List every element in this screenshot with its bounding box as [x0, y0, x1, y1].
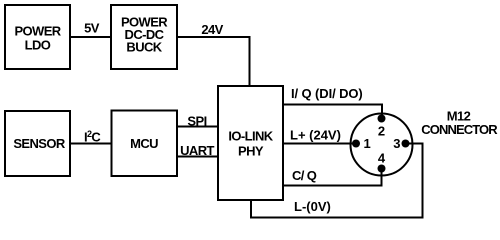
power DC-DC buck block: [111, 5, 177, 69]
pin 4 dot: [378, 165, 386, 173]
svg-text:SENSOR: SENSOR: [13, 136, 66, 151]
svg-text:L+ (24V): L+ (24V): [290, 128, 341, 143]
wire UART: MCU to PHY: [177, 156, 218, 158]
svg-text:2: 2: [378, 123, 385, 138]
wire I/Q: PHY to pin 2: [283, 105, 382, 119]
wire L+: PHY to pin 1: [283, 143, 356, 145]
svg-text:I2C: I2C: [84, 129, 101, 145]
wire I2C: sensor to MCU: [70, 143, 112, 145]
svg-text:PHY: PHY: [238, 143, 264, 158]
wire SPI: MCU to PHY: [177, 126, 218, 128]
pin 2 dot: [378, 115, 386, 123]
svg-text:24V: 24V: [201, 22, 223, 37]
svg-text:3: 3: [393, 136, 400, 151]
svg-text:C/ Q: C/ Q: [292, 168, 317, 183]
svg-text:UART: UART: [180, 143, 214, 158]
svg-text:MCU: MCU: [130, 136, 158, 151]
svg-text:BUCK: BUCK: [126, 40, 162, 55]
svg-text:POWER: POWER: [14, 23, 61, 38]
pin 1 dot: [352, 140, 360, 148]
svg-text:IO-LINK: IO-LINK: [228, 129, 273, 144]
wire 24V: buck to IO-Link PHY top: [177, 37, 250, 86]
M12 connector body: [351, 114, 413, 176]
svg-text:4: 4: [378, 151, 386, 166]
wire C/Q: PHY to pin 4: [283, 169, 382, 186]
label M12 CONNECTOR: [421, 108, 498, 137]
wire 5V: LDO to buck: [70, 36, 111, 38]
sensor block: [5, 111, 70, 176]
pin 3 dot: [402, 140, 410, 148]
svg-text:5V: 5V: [84, 21, 100, 36]
svg-text:LDO: LDO: [25, 37, 51, 52]
svg-text:SPI: SPI: [187, 113, 206, 128]
svg-text:1: 1: [364, 136, 371, 151]
svg-text:I/ Q (DI/ DO): I/ Q (DI/ DO): [291, 86, 363, 101]
svg-text:L-(0V): L-(0V): [294, 199, 331, 214]
wire L-: PHY bottom to pin 3: [251, 144, 423, 218]
power LDO block: [5, 5, 70, 69]
IO-Link PHY block: [218, 86, 283, 200]
svg-text:CONNECTOR: CONNECTOR: [421, 122, 498, 137]
MCU block: [112, 111, 178, 177]
